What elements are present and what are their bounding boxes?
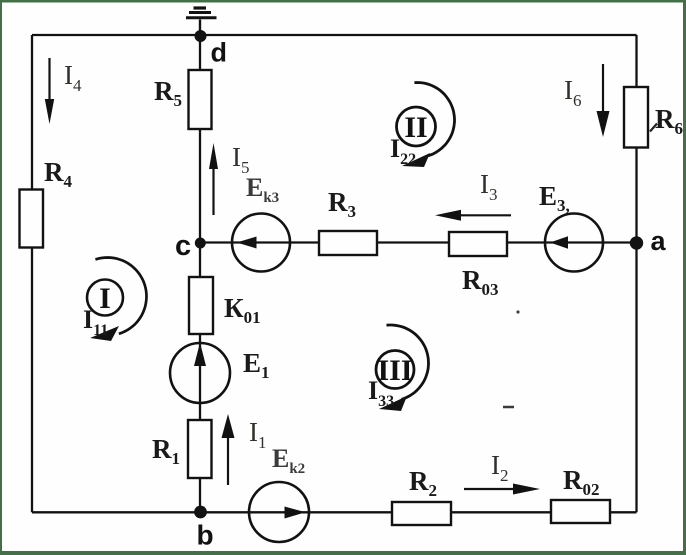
current arrow I1 xyxy=(222,414,235,485)
wire R03 to a xyxy=(507,241,637,243)
source Ek3 xyxy=(232,214,290,272)
resistor R3 xyxy=(319,231,377,255)
wire d to R5 xyxy=(199,36,201,70)
resistor R02 xyxy=(551,500,610,523)
resistor R2 xyxy=(392,502,451,525)
source Ek2 xyxy=(249,482,309,542)
wire R3 to R03 xyxy=(377,241,449,243)
wire R01 to E1 to R1 xyxy=(199,334,201,420)
node b xyxy=(194,506,207,519)
current arrow I5 xyxy=(209,143,218,215)
resistor R01 xyxy=(189,277,213,334)
source Ek3 arrow xyxy=(237,237,257,249)
wire right xyxy=(635,35,637,512)
current arrow I6 xyxy=(597,64,610,137)
R6 tick mark xyxy=(650,124,657,132)
svg-text:II: II xyxy=(404,111,427,144)
loop III symbol xyxy=(376,325,429,411)
current arrow I2 xyxy=(464,484,540,495)
current arrow I3 xyxy=(435,210,511,221)
source Ek2 arrow xyxy=(285,507,306,519)
wire c to R3 xyxy=(205,241,319,243)
wire bottom xyxy=(32,511,637,513)
current arrow I4 xyxy=(45,58,54,124)
svg-text:III: III xyxy=(377,354,412,387)
loop I symbol xyxy=(87,258,147,342)
svg-text:I: I xyxy=(99,282,111,315)
source E3 arrow xyxy=(550,236,568,248)
node d xyxy=(195,30,207,42)
wire R5 to c to R01 xyxy=(199,129,201,277)
node a xyxy=(630,236,643,249)
artifact dash xyxy=(503,406,514,409)
ground xyxy=(186,8,217,31)
wire left xyxy=(31,35,33,512)
resistor R5 xyxy=(189,70,212,129)
svg-text:b: b xyxy=(197,520,214,551)
artifact dot xyxy=(516,310,519,313)
svg-text:a: a xyxy=(651,226,667,256)
source E1 arrow xyxy=(194,343,206,367)
source E3 xyxy=(545,214,603,272)
resistor R1 xyxy=(188,420,212,478)
svg-text:d: d xyxy=(211,38,228,68)
svg-text:c: c xyxy=(175,230,191,262)
wire top xyxy=(32,34,637,36)
source E1 xyxy=(170,343,230,403)
resistor R6 xyxy=(624,87,648,148)
loop II symbol xyxy=(397,83,455,168)
wire R1 to b xyxy=(199,478,201,512)
node c xyxy=(195,238,206,249)
resistor R03 xyxy=(449,232,507,256)
resistor R4 xyxy=(20,190,44,248)
